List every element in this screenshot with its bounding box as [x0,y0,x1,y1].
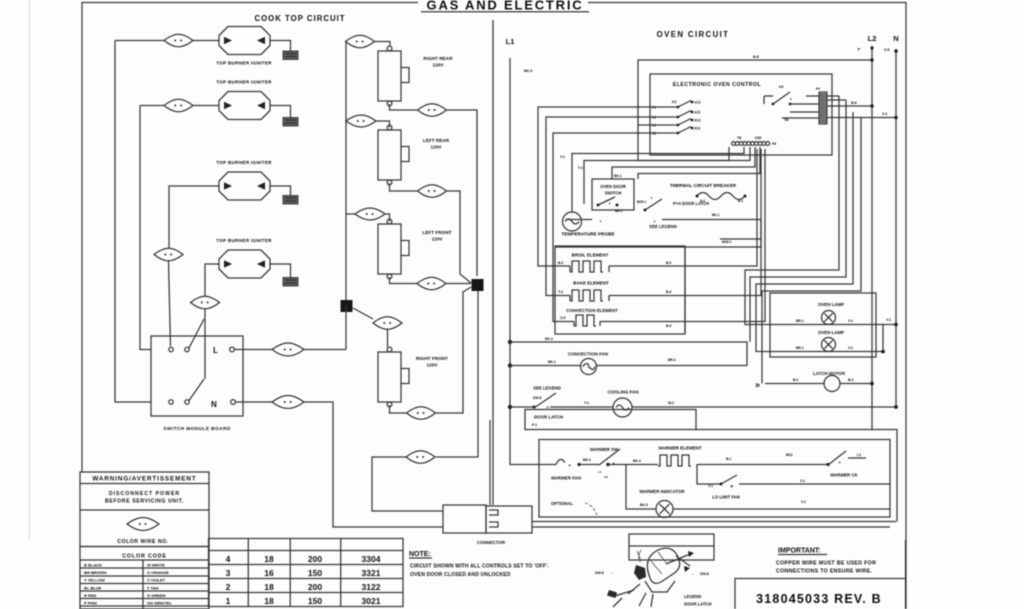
svg-text:▲: ▲ [608,201,611,205]
warmer switch S5 [580,447,620,479]
wire B7 up to J2 [436,287,471,413]
svg-text:P-1: P-1 [532,423,537,427]
surface unit right rear [378,46,453,106]
top burner igniter I4 [216,238,272,278]
wire L1 bus [510,58,539,465]
surface unit left rear [378,125,450,185]
svg-text:BR-1: BR-1 [615,209,623,213]
svg-text:BK-1: BK-1 [712,213,720,217]
svg-text:LEFT FRONT: LEFT FRONT [422,230,451,235]
wire L oval to junction [304,349,346,351]
ground G1 [270,41,298,60]
svg-text:LATCH MOTOR: LATCH MOTOR [813,371,846,376]
wire lamp2 to N [876,351,883,353]
svg-text:120V: 120V [433,63,445,68]
connector oval B-2a [346,115,376,127]
svg-text:O-5: O-5 [560,316,566,320]
svg-text:3: 3 [226,568,231,578]
convection element [566,308,685,328]
door latch legend sketch [595,534,714,607]
connector oval B-7 [407,407,436,420]
svg-text:150: 150 [308,568,322,578]
svg-text:BR BROWN: BR BROWN [84,570,107,575]
svg-text:BK-1: BK-1 [614,174,622,178]
svg-text:3021: 3021 [362,596,381,606]
connector oval W-1 [406,451,435,464]
svg-text:V-1: V-1 [801,500,806,504]
convection fan M1 [510,352,747,375]
oven lamp DS2 [770,330,876,352]
oven lamp box [770,293,876,357]
wire latch feed [510,342,747,366]
svg-text:GN GRN/YEL: GN GRN/YEL [147,601,172,606]
svg-text:L2: L2 [868,34,877,43]
svg-text:18: 18 [264,596,274,606]
wire warmer main [608,464,658,466]
svg-text:N: N [211,400,217,409]
svg-text:16: 16 [264,568,274,578]
svg-text:LEGEND: LEGEND [684,594,701,599]
svg-text:200: 200 [308,554,322,564]
wire bus to connector [492,20,494,505]
svg-text:CONVECTION ELEMENT: CONVECTION ELEMENT [566,308,618,313]
svg-text:BR-4: BR-4 [668,358,676,362]
svg-text:OPTIONAL: OPTIONAL [551,501,574,506]
svg-text:COLOR CODE: COLOR CODE [122,554,167,560]
svg-text:B-8: B-8 [753,55,759,59]
svg-text:▼: ▼ [650,196,653,200]
op box electronic oven control U1 [650,74,832,155]
svg-text:▾: ▾ [789,97,792,101]
svg-text:O ORANGE: O ORANGE [147,570,169,575]
svg-text:BL BLUE: BL BLUE [84,585,102,590]
top burner igniter I3 [216,160,272,200]
svg-text:SWITCH: SWITCH [605,191,622,196]
svg-text:COOLING FAN: COOLING FAN [607,390,638,395]
wire elements right [684,246,686,334]
warmer ck switch S7 [786,451,866,478]
svg-text:COOK TOP CIRCUIT: COOK TOP CIRCUIT [254,14,345,23]
junction L1 cooling [508,405,512,409]
wire unit3 out [390,277,418,284]
svg-text:Y-1: Y-1 [578,166,583,170]
svg-text:K3: K3 [672,100,676,104]
wire igniter3 drop [169,186,219,248]
wire door box bottom [555,220,761,248]
wire B1 to junction J2 [447,110,477,276]
svg-text:V-1: V-1 [800,479,805,483]
svg-text:120V: 120V [427,363,439,368]
wire gauge table [209,539,404,607]
svg-text:K3D: K3D [755,136,762,140]
svg-text:→: → [610,570,614,575]
svg-text:BK-5: BK-5 [640,503,648,507]
svg-text:B/W-1: B/W-1 [722,240,732,244]
wire doorswitch feed B [612,147,755,179]
svg-text:BK-3: BK-3 [524,69,532,73]
wire element out [697,465,790,485]
svg-text:18: 18 [264,582,274,592]
oven door switch S1 [597,197,623,213]
svg-text:A0: A0 [604,475,608,479]
wire L2 bus [871,46,873,430]
svg-text:DOOR LATCH: DOOR LATCH [684,602,712,607]
ground G3 [270,186,298,204]
wire igniter1 to switch N [115,41,151,403]
svg-text:DISCONNECT POWER: DISCONNECT POWER [109,491,180,497]
svg-text:B-2: B-2 [558,261,563,265]
oven door switch box [592,179,634,210]
warning box [80,472,209,547]
wire oval B6 to unit4 [387,330,389,348]
svg-text:L1: L1 [598,470,602,474]
svg-text:BROIL ELEMENT: BROIL ELEMENT [572,253,609,258]
svg-text:V-1: V-1 [848,319,853,323]
svg-text:V-1: V-1 [882,112,887,116]
svg-text:GAS AND ELECTRIC: GAS AND ELECTRIC [427,0,584,13]
svg-text:OVEN DOOR CLOSED AND UNLOCKED: OVEN DOOR CLOSED AND UNLOCKED [410,572,511,578]
bake element [570,281,685,302]
svg-text:4: 4 [226,554,231,564]
svg-text:▸: ▸ [599,219,602,223]
svg-text:SEE LEGEND: SEE LEGEND [649,224,677,229]
svg-text:1CS: 1CS [694,111,700,115]
svg-text:P6: P6 [772,142,776,146]
door latch switch S2 [637,196,720,217]
svg-text:BR-3: BR-3 [583,458,591,462]
junction L1 conv [508,340,512,344]
connector oval N [272,396,304,409]
svg-text:120V: 120V [431,145,443,150]
svg-text:TEMPERATURE PROBE: TEMPERATURE PROBE [561,232,614,237]
wire igniter4 drop [205,264,219,296]
svg-text:WARMER INDICATOR: WARMER INDICATOR [639,489,685,494]
svg-text:▲: ▲ [838,460,841,464]
connector oval V-7 [191,296,220,309]
svg-text:3122: 3122 [362,582,381,592]
wire J1 to oval B6 [353,308,373,319]
svg-text:DW-8: DW-8 [533,396,542,400]
wire oval2 to unit2 [376,121,390,128]
svg-text:120V: 120V [432,237,444,242]
svg-text:LEFT REAR: LEFT REAR [423,138,450,143]
svg-text:V VIOLET: V VIOLET [147,578,166,583]
cooling fan M2 [550,390,898,418]
svg-text:DOOR LATCH: DOOR LATCH [534,415,563,420]
svg-text:WARMER SW: WARMER SW [590,447,619,452]
wire K4 to header [806,103,819,105]
svg-text:▲: ▲ [568,463,571,467]
svg-text:IMPORTANT:: IMPORTANT: [778,548,821,555]
svg-text:THERMAL CIRCUIT BREAKER: THERMAL CIRCUIT BREAKER [670,183,737,188]
wire EOC feed convection [553,133,659,322]
svg-text:RIGHT FRONT: RIGHT FRONT [416,356,448,361]
connector oval V-6 [140,99,219,112]
svg-text:B-1: B-1 [738,199,743,203]
svg-text:150: 150 [308,596,322,606]
svg-text:W WHITE: W WHITE [147,563,165,568]
relay contacts K4 [764,85,806,122]
connector oval L [272,343,304,356]
svg-text:Y-2: Y-2 [558,290,563,294]
svg-text:2: 2 [226,582,231,592]
note block [409,551,549,578]
svg-text:Y-1: Y-1 [560,155,565,159]
svg-text:B-3: B-3 [666,261,671,265]
svg-text:CONVECTION FAN: CONVECTION FAN [568,352,608,357]
junction J1 [341,300,353,312]
temperature probe RT1 [561,212,614,237]
switch module board [151,319,243,432]
wire igniter3 to switch [169,261,171,346]
wire header out [827,96,861,124]
pin header P4 [816,87,827,124]
wire bake riser [685,149,761,296]
svg-text:BK-4: BK-4 [633,459,641,463]
wire igniter2 to switch L [140,106,151,350]
pin connector strip TB/K3D [732,136,777,146]
connector oval B-3 [418,185,447,198]
svg-text:1CO: 1CO [694,101,701,105]
svg-text:TB: TB [784,118,789,122]
top burner igniter I1 [216,27,272,66]
connector oval B-1a [346,35,375,48]
svg-text:COPPER WIRE MUST BE USED FOR: COPPER WIRE MUST BE USED FOR [776,561,876,567]
svg-text:BK-2: BK-2 [545,337,553,341]
surface unit left front [378,219,452,279]
warmer element R1 [658,446,702,467]
relay contacts K3 [652,100,701,136]
svg-text:2CO: 2CO [694,119,701,123]
wire J1 down to L wire [345,306,347,350]
svg-text:P4: P4 [816,87,820,91]
ground G2 [270,106,298,127]
lo limit switch S6 [712,475,890,500]
top burner igniter I2 [216,80,272,120]
svg-text:BK2: BK2 [786,453,793,457]
svg-text:1: 1 [226,596,231,606]
connector oval B-4a [346,213,355,215]
svg-text:RIGHT REAR: RIGHT REAR [423,56,453,61]
svg-text:B-1: B-1 [726,457,731,461]
svg-text:B-4: B-4 [666,290,671,294]
wire EOC feed broil [538,107,659,266]
connector oval V-4 [115,34,219,47]
title block 318045033 [735,540,906,609]
svg-text:V-1: V-1 [848,346,853,350]
svg-text:BEFORE SERVICING UNIT.: BEFORE SERVICING UNIT. [105,499,184,505]
svg-text:SWITCH MODULE BOARD: SWITCH MODULE BOARD [163,426,231,432]
wires below warmer box [532,521,896,523]
svg-text:L2: L2 [857,453,861,457]
svg-text:318045033 REV. B: 318045033 REV. B [756,592,882,606]
svg-text:ELECTRONIC OVEN CONTROL: ELECTRONIC OVEN CONTROL [673,82,762,88]
svg-text:WARNING/AVERTISSEMENT: WARNING/AVERTISSEMENT [92,476,196,483]
wire EOC feed bake [546,117,659,296]
important note [776,548,876,575]
svg-text:V-8: V-8 [884,48,889,52]
svg-text:OVEN CIRCUIT: OVEN CIRCUIT [657,30,730,39]
wire B5 to junction J2 [446,283,471,285]
wire lamp feeds staircase [745,124,839,325]
svg-text:P PINK: P PINK [84,601,97,606]
wire igniter4 to switch [204,309,206,379]
svg-text:Y-1: Y-1 [584,401,589,405]
svg-text:L: L [213,346,218,355]
ground G4 [270,264,298,286]
warmer indicator DS3 [626,465,890,518]
wire EOC out to L2 [827,105,872,107]
wire main cooktop feed [346,42,390,301]
svg-text:TB: TB [737,136,742,140]
wire W oval to connector [372,457,443,511]
wire EOC top to L2 [638,60,872,161]
svg-text:200: 200 [308,582,322,592]
wire doorswitch feed C [638,147,760,179]
wire oval3 to unit3 [385,214,390,222]
svg-text:B-6: B-6 [851,101,857,105]
svg-text:WARMER CK: WARMER CK [830,473,858,478]
svg-text:TOP BURNER IGNITER: TOP BURNER IGNITER [216,238,272,243]
title GAS AND ELECTRIC [421,0,589,13]
svg-text:▶: ▶ [730,484,734,488]
wire probe feed [572,147,744,212]
svg-text:B BLACK: B BLACK [84,563,102,568]
svg-text:B-2: B-2 [793,378,798,382]
warmer circuit box [539,440,890,518]
wire N oval to connector [304,402,443,527]
wire switch N out [235,401,272,403]
svg-text:COLOR WIRE NO.: COLOR WIRE NO. [117,539,168,545]
wire convection riser [685,149,765,322]
wire lamp1 to N [876,324,896,326]
svg-text:WARMER ELEMENT: WARMER ELEMENT [658,446,702,451]
thermal circuit breaker TB1 [670,183,747,203]
svg-text:W-2: W-2 [668,401,674,405]
wire unit2 out [390,183,418,191]
svg-text:OVEN LAMP: OVEN LAMP [818,302,844,307]
warmer fan switch S4 [539,458,591,467]
svg-text:OVEN LAMP: OVEN LAMP [818,330,844,335]
svg-text:CIRCUIT SHOWN WITH ALL CONTROL: CIRCUIT SHOWN WITH ALL CONTROLS SET TO '… [410,564,549,570]
svg-text:SEE LEGEND: SEE LEGEND [533,386,561,391]
svg-text:Y YELLOW: Y YELLOW [84,578,105,583]
broil element [570,253,685,273]
wire unit1 out [390,104,418,110]
wire EOC stub [638,125,729,161]
svg-text:←: ← [691,571,695,576]
svg-text:P+A DOOR LATCH: P+A DOOR LATCH [673,201,709,206]
wire unit4 out [390,405,407,413]
latch motor M3 [755,371,874,392]
wire doorswitch feed A [584,147,750,204]
wire N bus [895,49,897,406]
surface unit right front [378,347,448,407]
svg-text:CONNECTIONS TO ENSURE WIRE.: CONNECTIONS TO ENSURE WIRE. [776,569,873,575]
junction J2 [472,279,484,291]
wire bottom right [696,430,897,522]
svg-text:L1: L1 [506,37,515,46]
connector oval B-1 [418,104,447,117]
wire B3 to junction J2 [447,191,471,283]
svg-text:BAKE ELEMENT: BAKE ELEMENT [573,281,609,286]
svg-text:OVEN DOOR: OVEN DOOR [600,184,626,189]
svg-text:▸: ▸ [857,46,861,51]
svg-text:B-2: B-2 [848,378,853,382]
svg-text:»: » [755,380,760,390]
latch interlock switch S3 [510,393,556,409]
oven elements box [555,246,685,334]
connector oval V-5 [154,248,183,261]
svg-text:18: 18 [264,554,274,564]
connector P1 [443,505,532,545]
svg-text:2CS: 2CS [694,127,700,131]
svg-text:LO LIMIT FAN: LO LIMIT FAN [712,495,739,500]
svg-text:T TAN: T TAN [147,585,159,590]
svg-text:BK-1: BK-1 [548,360,556,364]
door latch box [525,410,696,430]
svg-text:R RED: R RED [84,593,97,598]
oven lamp DS1 [770,302,876,325]
wire EOC out to N [827,117,896,119]
svg-text:CONNECTOR: CONNECTOR [477,540,506,545]
svg-text:WARMER FAN: WARMER FAN [551,476,581,481]
svg-text:NOTE:: NOTE: [409,551,431,558]
connector oval B-5 [417,277,446,290]
svg-text:3304: 3304 [362,554,381,564]
svg-text:B/W-1: B/W-1 [637,200,646,204]
svg-text:▲: ▲ [653,219,656,223]
connector oval B-6 [373,317,402,330]
svg-text:DW-8: DW-8 [700,572,709,576]
svg-text:3321: 3321 [362,568,381,578]
label optional [551,501,597,515]
svg-text:BR-1: BR-1 [796,346,804,350]
svg-text:DW-8: DW-8 [595,571,604,575]
svg-text:G GREEN: G GREEN [147,593,166,598]
wire J2 down to W oval [436,291,478,457]
wire switch L out [235,349,273,351]
svg-text:TOP BURNER IGNITER: TOP BURNER IGNITER [216,61,272,66]
svg-text:V-1: V-1 [886,318,891,322]
color code table [80,547,209,609]
svg-text:TOP BURNER IGNITER: TOP BURNER IGNITER [216,80,272,85]
svg-text:BR-1: BR-1 [796,319,804,323]
svg-text:V-1: V-1 [708,484,713,488]
svg-text:N: N [893,34,898,43]
svg-text:K4: K4 [779,85,783,89]
svg-text:B-5: B-5 [666,324,671,328]
svg-text:▲: ▲ [546,405,549,409]
svg-text:TOP BURNER IGNITER: TOP BURNER IGNITER [216,160,272,165]
wire broil riser [685,149,757,266]
